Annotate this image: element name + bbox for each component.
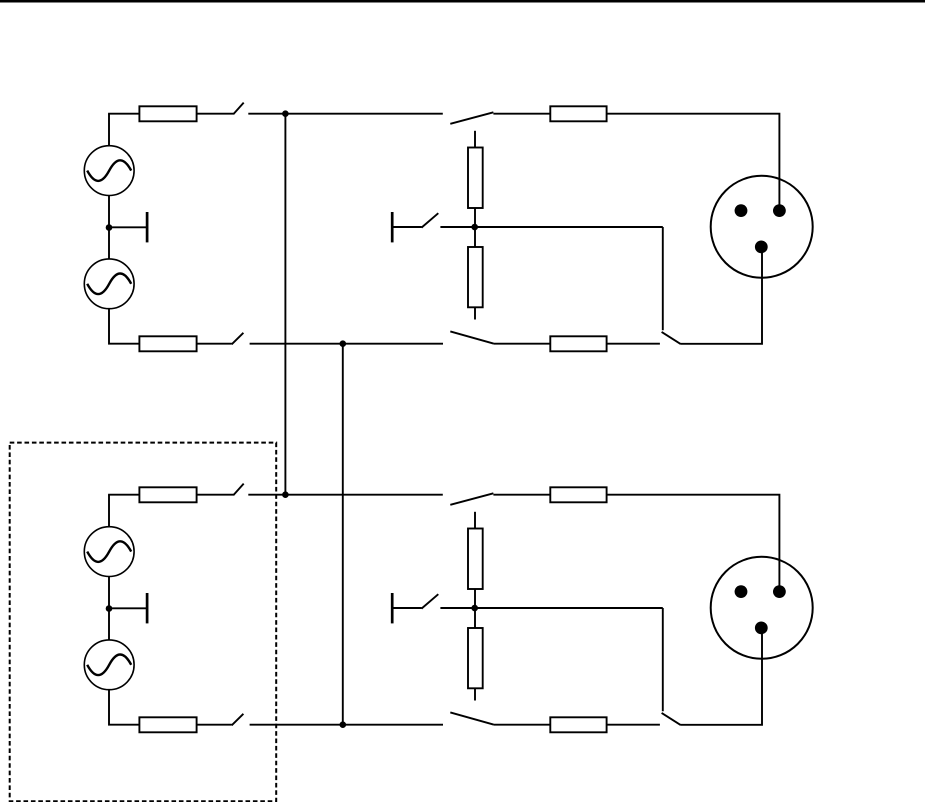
resistor R11 (divider lower) bbox=[468, 628, 483, 688]
wire switch S8 to switch S11 (cold rail) bbox=[250, 724, 443, 726]
terminal T4 (ground terminal) bbox=[392, 593, 421, 623]
node A1 (bus A junction on channel 1 hot rail) bbox=[282, 110, 289, 117]
switch S7 (blade, open) bbox=[233, 484, 243, 496]
wire R1 to switch S1 bbox=[197, 113, 234, 115]
wire R7 to switch S7 bbox=[197, 494, 234, 496]
resistor R5 (divider lower) bbox=[468, 247, 483, 307]
wire V1 to V2 (center tap) bbox=[108, 196, 110, 259]
wire switch S12 to XLR pin 3 of J2 bbox=[680, 628, 762, 725]
node B2 (bus B junction on channel 2 cold rail) bbox=[340, 721, 347, 728]
AC source V2 bbox=[84, 259, 134, 309]
switch S5 (blade on cold rail) bbox=[450, 331, 493, 343]
resistor R4 (divider upper) bbox=[468, 148, 483, 209]
wire HOT1 from V1 to R series (left vertical, hot) bbox=[108, 114, 110, 146]
switch S10 (blade, open) bbox=[422, 594, 439, 608]
wire switch S1 to switch S3 (hot rail) bbox=[248, 113, 442, 115]
node N4 (divider center junction) bbox=[471, 605, 478, 612]
resistor R3 bbox=[550, 106, 606, 121]
wire switch S11 to resistor R12 bbox=[494, 724, 551, 726]
wire switch S9 to resistor R9 bbox=[493, 494, 550, 496]
switch S12 (changeover blade to divider) bbox=[662, 713, 681, 725]
terminal T2 (ground terminal) bbox=[392, 212, 421, 242]
XLR connector J2 bbox=[711, 557, 813, 659]
wire R3 to XLR pin 2 of J1 bbox=[607, 114, 780, 211]
resistor R6 bbox=[550, 336, 606, 351]
wire switch S2 to switch S5 (cold rail) bbox=[250, 343, 443, 345]
wire stub above resistor R10 bbox=[474, 512, 476, 529]
resistor R10 (divider upper) bbox=[468, 529, 483, 590]
wire switch S4 to divider node N2 bbox=[440, 226, 662, 228]
wire V4 to cold rail bbox=[109, 690, 139, 725]
node A2 (bus A junction on channel 2 hot rail) bbox=[282, 491, 289, 498]
switch S1 (blade, open) bbox=[233, 103, 243, 115]
pin 1 of J2 bbox=[735, 585, 748, 598]
resistor R1 bbox=[139, 106, 196, 121]
resistor R9 bbox=[550, 487, 606, 502]
wire V3 to V4 (center tap) bbox=[108, 577, 110, 640]
wire from left vertical to resistor R7 bbox=[108, 494, 139, 496]
wire V2 to cold rail bbox=[109, 309, 139, 344]
switch S3 (blade on hot rail) bbox=[450, 112, 493, 124]
pin 2 of J1 bbox=[773, 204, 786, 217]
AC source V1 bbox=[84, 146, 134, 196]
resistor R12 bbox=[550, 717, 606, 732]
wire bus B (cold link between channels) bbox=[342, 344, 344, 725]
wire HOT2 from V3 to R series (left vertical, hot) bbox=[108, 495, 110, 527]
node N1 (center-tap junction) bbox=[106, 224, 113, 231]
switch S8 (blade, open) bbox=[232, 714, 244, 726]
resistor R7 bbox=[139, 487, 196, 502]
wire switch S3 to resistor R3 bbox=[493, 113, 550, 115]
wire switch S6 to XLR pin 3 of J1 bbox=[680, 247, 762, 344]
wire node N4 down to changeover switch S12 bbox=[662, 608, 664, 711]
pin 1 of J1 bbox=[735, 204, 748, 217]
wire R8 to switch S8 bbox=[197, 724, 232, 726]
node N2 (divider center junction) bbox=[471, 224, 478, 231]
wire stub below resistor R5 bbox=[474, 307, 476, 319]
wire switch S7 to switch S9 (hot rail) bbox=[248, 494, 442, 496]
wire R6 to changeover switch S6 (open end) bbox=[607, 343, 660, 345]
wire R2 to switch S2 bbox=[197, 343, 232, 345]
terminal T3 (center-tap terminal) bbox=[109, 593, 147, 623]
switch S11 (blade on cold rail) bbox=[450, 712, 493, 724]
switch S9 (blade on hot rail) bbox=[450, 493, 493, 505]
wire switch S10 to divider node N4 bbox=[440, 607, 662, 609]
wire switch S5 to resistor R6 bbox=[494, 343, 551, 345]
node N3 (center-tap junction) bbox=[106, 605, 113, 612]
pin 3 of J1 bbox=[755, 241, 768, 254]
wire R12 to changeover switch S12 (open end) bbox=[607, 724, 660, 726]
wire from left vertical to resistor R1 bbox=[108, 113, 139, 115]
terminal T1 (center-tap terminal) bbox=[109, 212, 147, 242]
pin 3 of J2 bbox=[755, 622, 768, 635]
wire bus A (hot link between channels) bbox=[284, 114, 286, 495]
wire R10 to R11 through node N4 bbox=[474, 589, 476, 628]
resistor R8 bbox=[139, 717, 196, 732]
top rule line bbox=[0, 0, 925, 2]
wire stub above resistor R4 bbox=[474, 131, 476, 148]
node B1 (bus B junction on channel 1 cold rail) bbox=[340, 340, 347, 347]
AC source V4 bbox=[84, 640, 134, 690]
pin 2 of J2 bbox=[773, 585, 786, 598]
wire R4 to R5 through node N2 bbox=[474, 208, 476, 247]
XLR connector J1 bbox=[711, 176, 813, 278]
resistor R2 bbox=[139, 336, 196, 351]
wire R9 to XLR pin 2 of J2 bbox=[607, 495, 780, 592]
wire stub below resistor R11 bbox=[474, 688, 476, 700]
switch S4 (blade, open) bbox=[422, 213, 439, 227]
enclosure (dashed box around channel 2 source section) bbox=[10, 443, 277, 802]
switch S6 (changeover blade to divider) bbox=[662, 332, 681, 344]
wire node N2 down to changeover switch S6 bbox=[662, 227, 664, 330]
switch S2 (blade, open) bbox=[232, 333, 244, 345]
AC source V3 bbox=[84, 527, 134, 577]
